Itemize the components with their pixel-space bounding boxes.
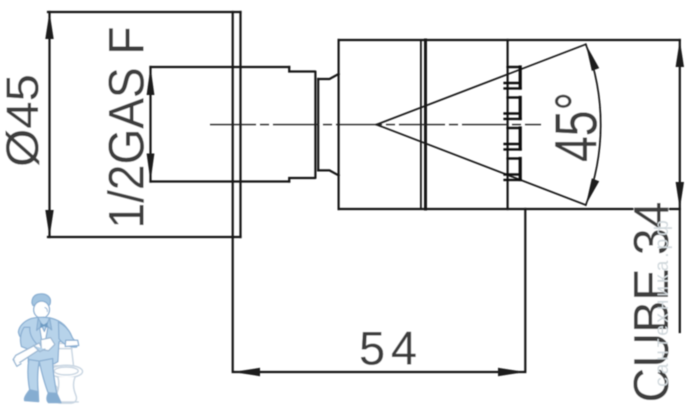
toilet bowl rim bbox=[50, 365, 83, 377]
head bottom edge / ext line bbox=[339, 208, 680, 210]
pipe wrench bbox=[13, 338, 55, 367]
dim line diameter 45 bbox=[48, 12, 50, 237]
inlet left edge / thread dim line bbox=[149, 67, 151, 182]
arrow dia45 top bbox=[45, 12, 53, 39]
trousers left leg bbox=[28, 360, 39, 392]
dim line cube 34 bbox=[679, 40, 681, 332]
step top bbox=[289, 67, 314, 72]
svg-text:Ø45: Ø45 bbox=[0, 74, 48, 167]
right shoe bbox=[47, 393, 61, 403]
neck face bbox=[317, 79, 319, 170]
head left edge bbox=[338, 40, 340, 209]
plumber man bbox=[18, 294, 78, 403]
tooth 3 bbox=[508, 127, 519, 129]
tooth 4 bbox=[508, 157, 519, 159]
bolt cap bbox=[52, 386, 57, 393]
arrow thread bottom bbox=[147, 154, 155, 182]
jacket body bbox=[18, 317, 68, 366]
neck top bbox=[318, 74, 338, 79]
arrow cube34 bottom bbox=[676, 182, 684, 209]
nozzle face line bbox=[507, 40, 509, 209]
toilet pedestal bbox=[55, 377, 76, 403]
svg-text:45°: 45° bbox=[544, 92, 610, 162]
svg-text:1/2GAS F: 1/2GAS F bbox=[99, 27, 155, 229]
arrow thread top bbox=[147, 67, 155, 95]
flange plate top edge bbox=[48, 11, 241, 13]
head ring line 1 bbox=[420, 40, 422, 209]
left arm bbox=[20, 327, 36, 350]
spray cone lower line bbox=[377, 125, 586, 205]
toilet tank bbox=[50, 343, 83, 403]
hand on tank bbox=[65, 340, 79, 346]
right arm to tank bbox=[58, 322, 77, 347]
tooth 2 bbox=[508, 96, 519, 98]
head top edge / ext line bbox=[339, 39, 680, 41]
arrow 54 left bbox=[233, 368, 260, 376]
svg-text:54: 54 bbox=[359, 322, 417, 375]
spray angle arc bbox=[586, 44, 601, 205]
flange plate right edge bbox=[239, 12, 241, 237]
trousers right leg bbox=[39, 358, 57, 393]
arrow 54 right bbox=[498, 368, 525, 376]
step bottom bbox=[289, 178, 314, 182]
dim line 54 bbox=[233, 209, 526, 372]
flange plate bottom edge bbox=[48, 236, 241, 238]
lapels bbox=[37, 318, 43, 330]
svg-text:сантехника.рф: сантехника.рф bbox=[652, 217, 673, 387]
wall face line bbox=[232, 12, 234, 237]
arrow arc lower bbox=[586, 178, 599, 205]
face bbox=[34, 301, 50, 318]
inlet bottom line bbox=[151, 180, 290, 182]
left shoe bbox=[24, 390, 38, 402]
head ring line 2 bbox=[424, 40, 427, 209]
arrow cube34 top bbox=[676, 40, 684, 67]
centerline bbox=[210, 124, 541, 126]
neck bottom bbox=[318, 170, 338, 175]
plumber logo bbox=[13, 294, 82, 403]
collar face bbox=[314, 72, 316, 178]
spray cone upper line bbox=[377, 44, 586, 124]
bow tie bbox=[40, 322, 47, 328]
tooth 1 bbox=[508, 66, 519, 68]
beret hair bbox=[32, 294, 51, 306]
shirt bbox=[38, 318, 49, 341]
arrow arc upper bbox=[586, 44, 599, 71]
arrow dia45 bottom bbox=[45, 210, 53, 237]
inlet top line bbox=[151, 66, 290, 68]
